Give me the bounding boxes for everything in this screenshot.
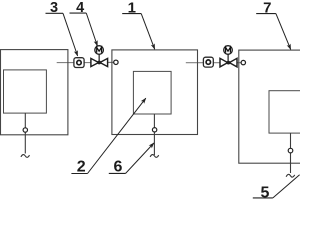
tank 7 drain circle: [288, 148, 293, 153]
valve V1 bowtie: [91, 58, 99, 66]
nozzle circle inside tank 7: [241, 60, 245, 64]
tank 1 inner box: [133, 71, 171, 114]
leader 7: [276, 14, 291, 50]
leader 5: [273, 175, 300, 198]
leader 6: [126, 143, 154, 173]
tank 1 drain wire: [153, 114, 155, 155]
wire stub valve1 to nozzle circle: [108, 61, 115, 63]
valve V2 bowtie: [220, 58, 228, 67]
left tank drain wire: [24, 113, 26, 153]
valve V1 stem: [98, 54, 100, 62]
flow meter FM1 (square with donut): [74, 58, 84, 68]
wire pipe from left tank to valve assembly 1: [57, 62, 92, 64]
wire stub valve2 to nozzle circle: [237, 62, 242, 64]
tank 7 drain break tilde: [286, 174, 295, 177]
left tank inner box: [4, 70, 47, 113]
tank 7 drain wire: [290, 133, 292, 173]
tank 7 inner box: [269, 91, 303, 133]
motor actuator M2 circle: [224, 46, 233, 55]
motor actuator M1 circle: [95, 46, 104, 55]
leader 4: [86, 13, 97, 46]
tank 1 outer box: [112, 50, 198, 135]
left drain circle: [23, 128, 27, 132]
wire pipe from tank 1 to valve assembly 2: [186, 62, 221, 64]
leader 1: [141, 14, 155, 50]
leader 3: [63, 13, 78, 56]
tank 1 drain break tilde: [150, 155, 159, 158]
flow meter FM2 (square with donut): [203, 57, 213, 67]
tank 1 drain circle: [152, 128, 156, 132]
left tank outer box: [1, 50, 68, 135]
left drain break tilde: [21, 155, 30, 158]
tank 7 outer box: [239, 50, 304, 163]
valve V2 stem: [227, 54, 229, 62]
nozzle circle inside tank 1: [114, 60, 118, 64]
svg-text:2: 2: [77, 158, 86, 175]
leader 2: [88, 98, 146, 173]
